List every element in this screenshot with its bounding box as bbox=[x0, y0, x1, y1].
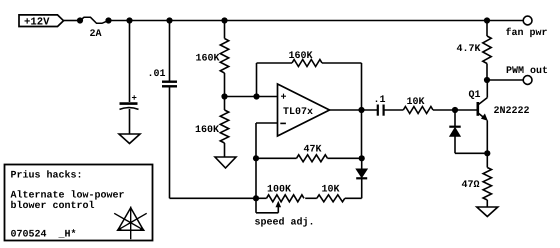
svg-text:TL07x: TL07x bbox=[283, 107, 313, 118]
wire output node down to 47K node bbox=[361, 110, 363, 158]
resistor R2 160K lower bbox=[195, 97, 229, 158]
capacitor C1 electrolytic bbox=[120, 94, 139, 110]
title text Prius hacks bbox=[11, 169, 83, 181]
wire op-amp - input bbox=[256, 123, 278, 198]
wire 47K row left bbox=[256, 157, 297, 159]
wire R1 top bbox=[224, 21, 226, 39]
svg-text:4.7K: 4.7K bbox=[457, 44, 481, 55]
resistor R7 10K top bbox=[403, 97, 433, 114]
op-amp U1 TL07x bbox=[278, 84, 330, 136]
node PWM junction bbox=[484, 77, 490, 83]
diode D2 clamp (pointing up) bbox=[449, 110, 487, 153]
wire op-amp output bbox=[330, 109, 378, 111]
svg-text:Prius hacks:: Prius hacks: bbox=[11, 169, 83, 181]
ground below R9 bbox=[477, 207, 498, 217]
node base junction bbox=[452, 107, 458, 113]
wire C1 top bbox=[129, 21, 131, 103]
wire tag to fuse bbox=[64, 20, 79, 22]
svg-text:2A: 2A bbox=[90, 29, 102, 40]
resistor R3 160K feedback bbox=[289, 51, 323, 66]
svg-text:blower control: blower control bbox=[11, 200, 95, 212]
wire to PWM terminal bbox=[487, 79, 523, 81]
svg-text:.1: .1 bbox=[374, 95, 386, 106]
svg-text:10K: 10K bbox=[322, 185, 340, 196]
transistor Q1 2N2222 bbox=[469, 80, 530, 153]
capacitor C3 .1 bbox=[374, 95, 386, 116]
node rail-C1 junction bbox=[126, 17, 132, 23]
wire +12V rail bbox=[109, 20, 524, 22]
svg-text:Alternate low-power: Alternate low-power bbox=[11, 189, 125, 201]
resistor R8 4.7K bbox=[457, 21, 492, 81]
potentiometer R6 100K speed adj bbox=[255, 185, 315, 229]
svg-text:_H*: _H* bbox=[58, 229, 77, 241]
node 47K right junction bbox=[359, 155, 365, 161]
logo triangle antenna bbox=[114, 207, 147, 240]
node rail-C2 junction bbox=[166, 17, 172, 23]
node output junction bbox=[358, 107, 364, 113]
svg-text:47Ω: 47Ω bbox=[462, 180, 480, 191]
svg-text:+12V: +12V bbox=[24, 17, 50, 29]
svg-text:10K: 10K bbox=[407, 97, 425, 108]
wire C3 to R7 bbox=[384, 109, 404, 111]
svg-text:Q1: Q1 bbox=[469, 90, 481, 101]
node rail-R7 junction bbox=[484, 17, 490, 23]
wire C2 top bbox=[169, 21, 171, 82]
node rail-R1 junction bbox=[221, 17, 227, 23]
svg-text:.01: .01 bbox=[148, 69, 166, 80]
svg-text:100K: 100K bbox=[267, 185, 291, 196]
wire C2 bottom to bottom row bbox=[170, 86, 257, 198]
fuse F1 2A bbox=[77, 17, 112, 40]
node B (+ input feedback tap) bbox=[253, 93, 259, 99]
svg-text:+: + bbox=[281, 92, 287, 103]
resistor R4 47K bbox=[297, 144, 328, 162]
wire 47K row right bbox=[328, 157, 362, 159]
wire bottom row right segment bbox=[345, 197, 362, 199]
svg-text:47K: 47K bbox=[304, 144, 322, 155]
svg-text:160K: 160K bbox=[195, 125, 219, 136]
node - input / 47K left junction bbox=[253, 155, 259, 161]
svg-text:+: + bbox=[132, 94, 137, 104]
wire C1 bottom bbox=[129, 109, 131, 134]
capacitor C2 .01 bbox=[148, 69, 178, 86]
wire R7 to base node bbox=[433, 109, 477, 111]
title text line 3 bbox=[11, 200, 95, 212]
terminal PWM out bbox=[506, 66, 548, 85]
node emitter junction bbox=[484, 150, 490, 156]
feedback wire to output node bbox=[322, 63, 362, 110]
svg-text:PWM out: PWM out bbox=[506, 66, 548, 77]
wire node A to op-amp + input bbox=[225, 96, 278, 98]
title text line 2 bbox=[11, 189, 125, 201]
node A (divider / + input) bbox=[221, 93, 227, 99]
title date 070524 _H* bbox=[11, 229, 77, 241]
title box bbox=[5, 165, 153, 241]
resistor R1 160K bbox=[196, 39, 229, 74]
svg-text:speed adj.: speed adj. bbox=[255, 217, 315, 229]
resistor R9 47ohm bbox=[462, 153, 492, 207]
ground below C1 bbox=[119, 134, 140, 144]
+12V supply tag bbox=[19, 15, 64, 29]
ground below R2 bbox=[215, 157, 236, 168]
wire R1 bottom to node A bbox=[224, 73, 226, 97]
resistor R5 10K bottom bbox=[317, 185, 345, 202]
svg-text:160K: 160K bbox=[196, 53, 220, 64]
terminal fan pwr bbox=[506, 16, 548, 39]
node bottom row left junction bbox=[253, 195, 267, 201]
feedback: wire node B up bbox=[257, 63, 293, 97]
wire pot to 10K bbox=[305, 197, 317, 199]
svg-text:070524: 070524 bbox=[11, 230, 47, 241]
diode D1 (series, pointing down) bbox=[356, 158, 367, 198]
svg-text:2N2222: 2N2222 bbox=[494, 106, 530, 117]
svg-text:fan pwr: fan pwr bbox=[506, 27, 548, 39]
svg-text:160K: 160K bbox=[289, 51, 313, 62]
